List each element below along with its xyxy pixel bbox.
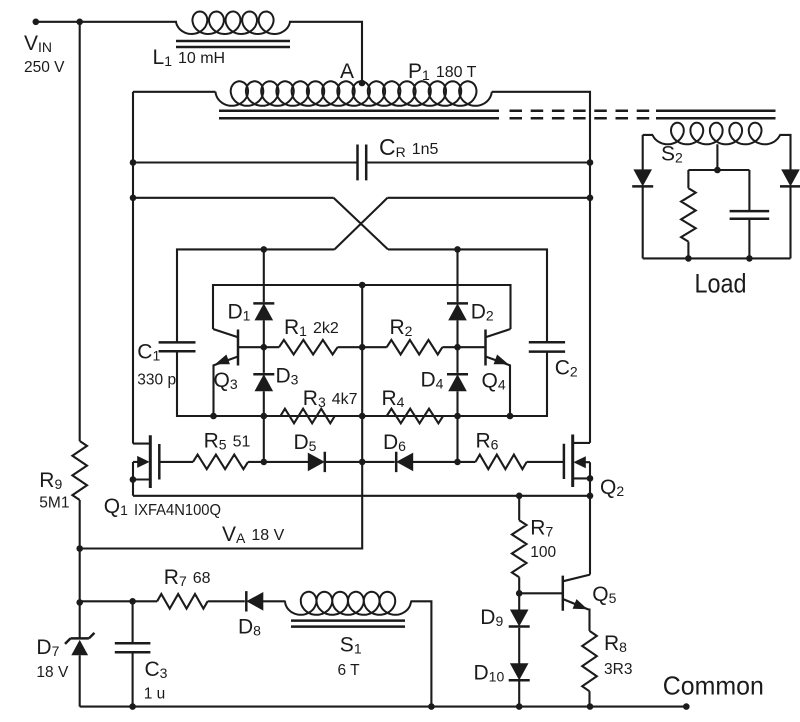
svg-text:100: 100 (530, 544, 556, 561)
svg-text:1 u: 1 u (144, 686, 166, 703)
svg-text:VA18 V: VA18 V (222, 523, 285, 546)
svg-text:250 V: 250 V (24, 59, 65, 76)
svg-text:330 p: 330 p (137, 372, 176, 389)
svg-text:L110 mH: L110 mH (153, 46, 226, 69)
svg-text:Common: Common (663, 671, 764, 701)
svg-text:IXFA4N100Q: IXFA4N100Q (134, 502, 221, 519)
svg-text:A: A (340, 60, 354, 83)
svg-text:P1180 T: P1180 T (408, 60, 477, 83)
svg-text:3R3: 3R3 (604, 661, 632, 678)
svg-text:5M1: 5M1 (39, 495, 69, 512)
svg-text:18 V: 18 V (36, 664, 69, 681)
svg-text:Load: Load (695, 269, 747, 299)
svg-text:6 T: 6 T (338, 662, 361, 679)
